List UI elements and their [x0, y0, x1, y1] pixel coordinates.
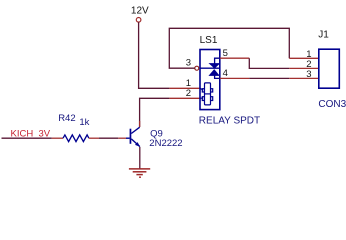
connector J1 pin 3 [289, 77, 319, 79]
relay LS1 upper contact triangle [210, 64, 220, 69]
wire relay pin 5 to J1 pin 2 [249, 58, 289, 68]
transistor Q9 collector pin [139, 121, 141, 127]
svg-text:4: 4 [223, 68, 228, 79]
resistor R42 [63, 135, 89, 142]
svg-text:2: 2 [186, 88, 191, 99]
svg-text:5: 5 [223, 48, 228, 59]
wire Q9 collector to relay pin 2 [140, 98, 170, 127]
relay LS1 coil [200, 83, 213, 105]
wire relay pin 3 to J1 pin 1 [169, 28, 289, 68]
relay LS1 pin 3 bubble [195, 66, 199, 70]
svg-text:RELAY SPDT: RELAY SPDT [199, 115, 260, 126]
relay LS1 lower contact triangle [209, 70, 219, 76]
resistor R42 right pin [89, 137, 99, 139]
relay LS1 internal common line [200, 67, 220, 69]
relay LS1 pin 1 [169, 87, 200, 89]
svg-text:3: 3 [306, 69, 311, 80]
resistor R42 left pin [52, 137, 63, 139]
svg-text:2N2222: 2N2222 [149, 138, 182, 149]
wire R42 to Q9 base [99, 137, 118, 139]
transistor Q9 [126, 127, 140, 146]
relay LS1 internal pin4 feed [215, 75, 220, 78]
connector J1 body [319, 49, 340, 88]
relay LS1 pin 4 [220, 77, 250, 79]
wire 12V to relay pin 1 [139, 22, 170, 88]
ground [129, 169, 150, 177]
connector J1 pin 1 [289, 57, 319, 59]
connector J1 pin 2 [289, 67, 319, 69]
svg-text:CON3: CON3 [318, 99, 346, 110]
relay LS1 body [200, 50, 220, 110]
transistor Q9 base pin [118, 137, 126, 139]
svg-text:LS1: LS1 [200, 35, 218, 46]
svg-text:R42: R42 [58, 113, 75, 124]
svg-text:12V: 12V [131, 6, 149, 17]
wire Q9 emitter to ground [139, 147, 141, 169]
relay LS1 pin 2 [169, 97, 200, 99]
wire relay pin 4 to J1 pin 3 [249, 77, 289, 79]
relay LS1 internal pin5 feed [215, 58, 220, 63]
relay LS1 pin 5 [220, 57, 250, 59]
svg-text:J1: J1 [318, 30, 329, 41]
svg-text:1k: 1k [79, 117, 89, 128]
wire KICH_3V to R42 [2, 137, 52, 139]
svg-text:3: 3 [186, 58, 191, 69]
transistor Q9 emitter arrow [135, 142, 140, 147]
